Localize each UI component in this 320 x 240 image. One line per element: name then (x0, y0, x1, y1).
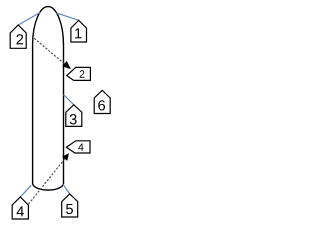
leader line to callout 1 (top-right) (57, 13, 79, 20)
capsule body outline (33, 7, 64, 190)
label 4 (17, 206, 24, 216)
arrowhead of dashed arrow A (62, 61, 71, 69)
callout pentagon 2 (top-left) (10, 25, 26, 48)
label 1 (75, 28, 81, 38)
tag 4 (right side pointer) (66, 141, 90, 153)
leader line to callout 2 (top-left) (18, 13, 40, 26)
leader line to callout 4 (bottom-left) (20, 185, 31, 197)
label 4 in tag (78, 144, 83, 151)
callout pentagon 6 (94, 90, 110, 113)
tag 2 (right side pointer) (67, 67, 91, 80)
label 2 in tag (80, 70, 85, 77)
dashed arrow A line (34, 38, 65, 64)
callout pentagon 3 (66, 105, 82, 127)
callout pentagon 1 (71, 20, 87, 42)
dashed arrow B line (29, 159, 65, 204)
callout pentagon 4 (bottom-left) (12, 197, 28, 219)
callout pentagon 5 (bottom) (62, 194, 78, 217)
leader line to callout 3 (63, 94, 73, 104)
label 6 (98, 100, 105, 110)
label 2 (16, 34, 23, 44)
leader line to callout 5 (bottom) (63, 184, 70, 194)
label 5 (66, 204, 73, 214)
arrowhead of dashed arrow B (62, 153, 69, 161)
label 3 (70, 114, 77, 124)
